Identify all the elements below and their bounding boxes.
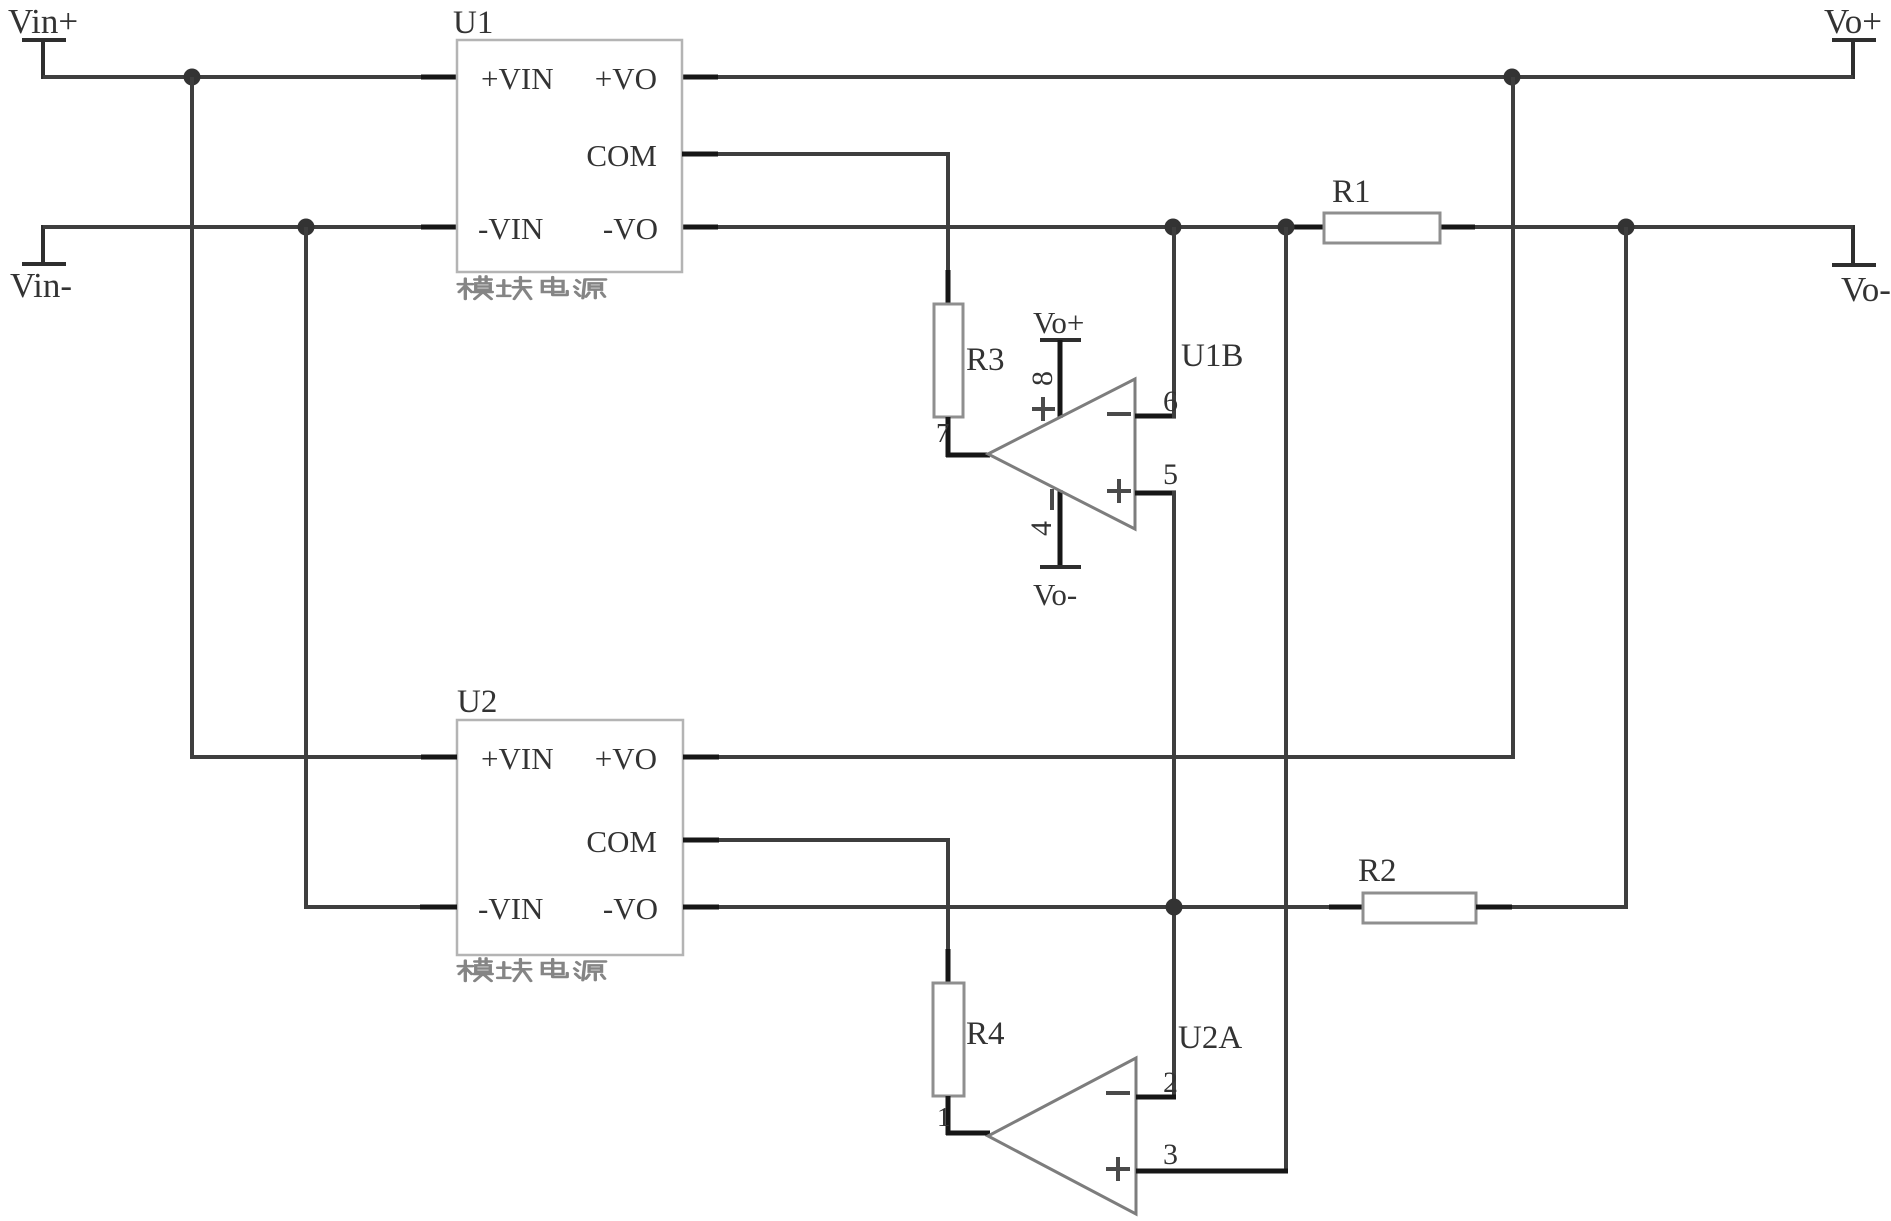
resistor R1	[1324, 174, 1440, 243]
svg-text:+VIN: +VIN	[481, 61, 554, 96]
op-amp U1 (module power supply box)	[453, 5, 682, 272]
wire Vin- to U1 -VIN (y=227)	[43, 225, 457, 229]
svg-text:U1: U1	[453, 5, 493, 41]
wire U2 -VO rail to R2 (y=907)	[683, 905, 1363, 909]
junction dot at (1174,907)	[1166, 899, 1183, 916]
wire into U2 -VIN (y=907)	[304, 905, 457, 909]
node Vin+ terminal	[8, 2, 78, 79]
wire Vin+ to U1 +VIN (y=77)	[43, 75, 457, 79]
node Vo+ terminal	[1824, 2, 1882, 79]
svg-text:R4: R4	[966, 1016, 1005, 1052]
wire vertical x=306 from -VIN rail to U2 -VIN	[304, 227, 308, 909]
junction dot at (192,77)	[184, 69, 201, 86]
junction dot at (1286,227)	[1278, 219, 1295, 236]
wire R2 right to riser (y=907)	[1476, 905, 1628, 909]
op-amp U1B triangle	[988, 338, 1243, 529]
svg-text:-VIN: -VIN	[478, 891, 543, 926]
power - marker (pin 4)	[1050, 489, 1054, 510]
wire R4 bottom to U2A output (pin 1)	[946, 1096, 990, 1135]
svg-text:Vo+: Vo+	[1824, 2, 1882, 41]
node Vo- terminal	[1832, 225, 1891, 309]
svg-text:Vo+: Vo+	[1033, 305, 1084, 340]
junction dot at (1626,227)	[1618, 219, 1635, 236]
wire U2A pin 2	[1136, 1095, 1176, 1100]
label 模块电源 (below U2)	[458, 958, 606, 981]
svg-text:Vin+: Vin+	[8, 2, 78, 41]
wire U1 -VO rail to R1 (y=227)	[682, 225, 1324, 229]
wire U1 +VO to Vo+ (y=77)	[682, 75, 1853, 79]
svg-text:COM: COM	[586, 824, 657, 859]
wire R1 right to Vo- (y=227)	[1440, 225, 1853, 229]
svg-text:U2: U2	[457, 684, 497, 720]
resistor R2	[1358, 853, 1476, 923]
svg-text:Vo-: Vo-	[1033, 577, 1077, 612]
wire R3 bottom to U1B output (pin 7)	[946, 417, 990, 457]
wire into U2 +VIN (y=757)	[190, 755, 457, 759]
wire vertical x=192 from top rail to U2 +VIN	[190, 77, 194, 759]
svg-text:+VO: +VO	[595, 61, 657, 96]
svg-text:-VO: -VO	[603, 891, 658, 926]
power + marker (pin 8)	[1032, 397, 1055, 421]
non-inverting input marker U2A	[1106, 1157, 1130, 1181]
svg-text:+VIN: +VIN	[481, 741, 554, 776]
junction dot at (1173,227)	[1165, 219, 1182, 236]
inverting input marker U1B	[1107, 412, 1131, 416]
svg-text:4: 4	[1025, 521, 1058, 536]
svg-text:2: 2	[1163, 1066, 1178, 1099]
svg-text:R3: R3	[966, 342, 1005, 378]
op-amp U2 (module power supply box)	[457, 684, 683, 955]
wire U1 COM to R3 top	[682, 152, 950, 304]
node Vin- terminal	[10, 225, 72, 305]
svg-text:6: 6	[1163, 385, 1178, 418]
wire vertical x=1626 from Vo- rail to R2 right	[1624, 227, 1628, 909]
inverting input marker U2A	[1106, 1091, 1130, 1095]
wire U2A pin 3	[1136, 1169, 1288, 1174]
svg-text:7: 7	[936, 418, 950, 448]
wire U1B pin 6 to -VO rail	[1135, 227, 1176, 418]
svg-text:COM: COM	[586, 138, 657, 173]
svg-text:-VO: -VO	[603, 211, 658, 246]
svg-text:5: 5	[1163, 458, 1178, 491]
junction dot at (306,227)	[298, 219, 315, 236]
svg-text:Vin-: Vin-	[10, 266, 72, 305]
resistor R4	[933, 983, 1005, 1096]
op-amp U2A triangle	[988, 1020, 1242, 1214]
wire U2A pin 3 riser (x=1286)	[1284, 227, 1288, 1173]
wire vertical x=1513 from top rail to U2 +VO	[1511, 77, 1515, 759]
wire U1B pin 5 down to U2A pin 2	[1135, 491, 1176, 1097]
svg-text:-VIN: -VIN	[478, 211, 543, 246]
svg-text:R2: R2	[1358, 853, 1397, 889]
svg-text:+VO: +VO	[595, 741, 657, 776]
svg-text:U2A: U2A	[1178, 1020, 1242, 1056]
wire U2 +VO to riser (y=757)	[683, 755, 1515, 759]
svg-text:Vo-: Vo-	[1841, 270, 1891, 309]
svg-text:8: 8	[1026, 371, 1059, 386]
wire U2 COM to R4 top	[683, 838, 950, 983]
junction dot at (1512,77)	[1504, 69, 1521, 86]
node Vo- power rail (U1B pin 4)	[1033, 490, 1081, 612]
label 模块电源 (below U1)	[458, 276, 606, 299]
svg-text:3: 3	[1163, 1138, 1178, 1171]
non-inverting input marker U1B	[1107, 479, 1131, 503]
resistor R3	[934, 304, 1005, 417]
node Vo+ power rail (U1B pin 8)	[1033, 305, 1084, 418]
svg-text:1: 1	[937, 1102, 951, 1132]
svg-text:R1: R1	[1332, 174, 1371, 210]
svg-text:U1B: U1B	[1181, 338, 1243, 374]
